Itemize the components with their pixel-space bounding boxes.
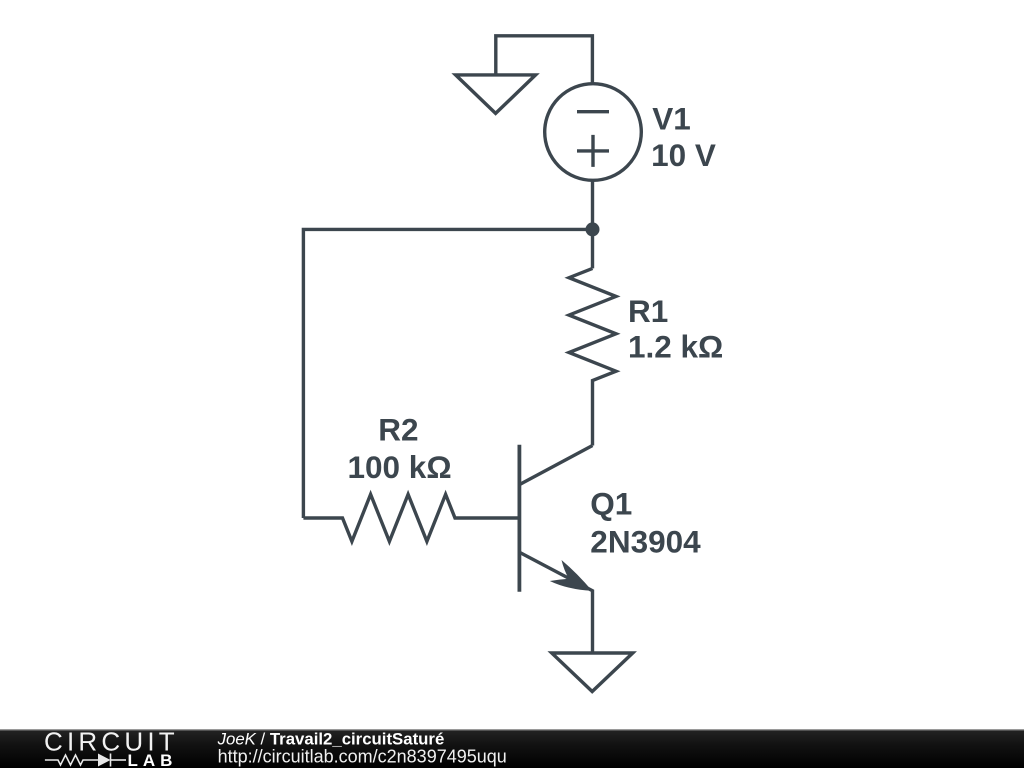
svg-text:R2: R2	[378, 412, 418, 448]
svg-text:R1: R1	[628, 293, 668, 329]
svg-text:1.2 kΩ: 1.2 kΩ	[628, 329, 723, 365]
svg-text:LAB: LAB	[128, 751, 178, 768]
svg-text:100 kΩ: 100 kΩ	[348, 449, 452, 485]
svg-text:10 V: 10 V	[651, 137, 716, 173]
svg-text:http://circuitlab.com/c2n83974: http://circuitlab.com/c2n8397495uqu	[218, 747, 507, 767]
svg-text:V1: V1	[652, 100, 691, 136]
svg-text:2N3904: 2N3904	[590, 524, 701, 560]
svg-text:JoeK / Travail2_circuitSaturé: JoeK / Travail2_circuitSaturé	[217, 729, 445, 748]
svg-text:Q1: Q1	[590, 485, 632, 521]
